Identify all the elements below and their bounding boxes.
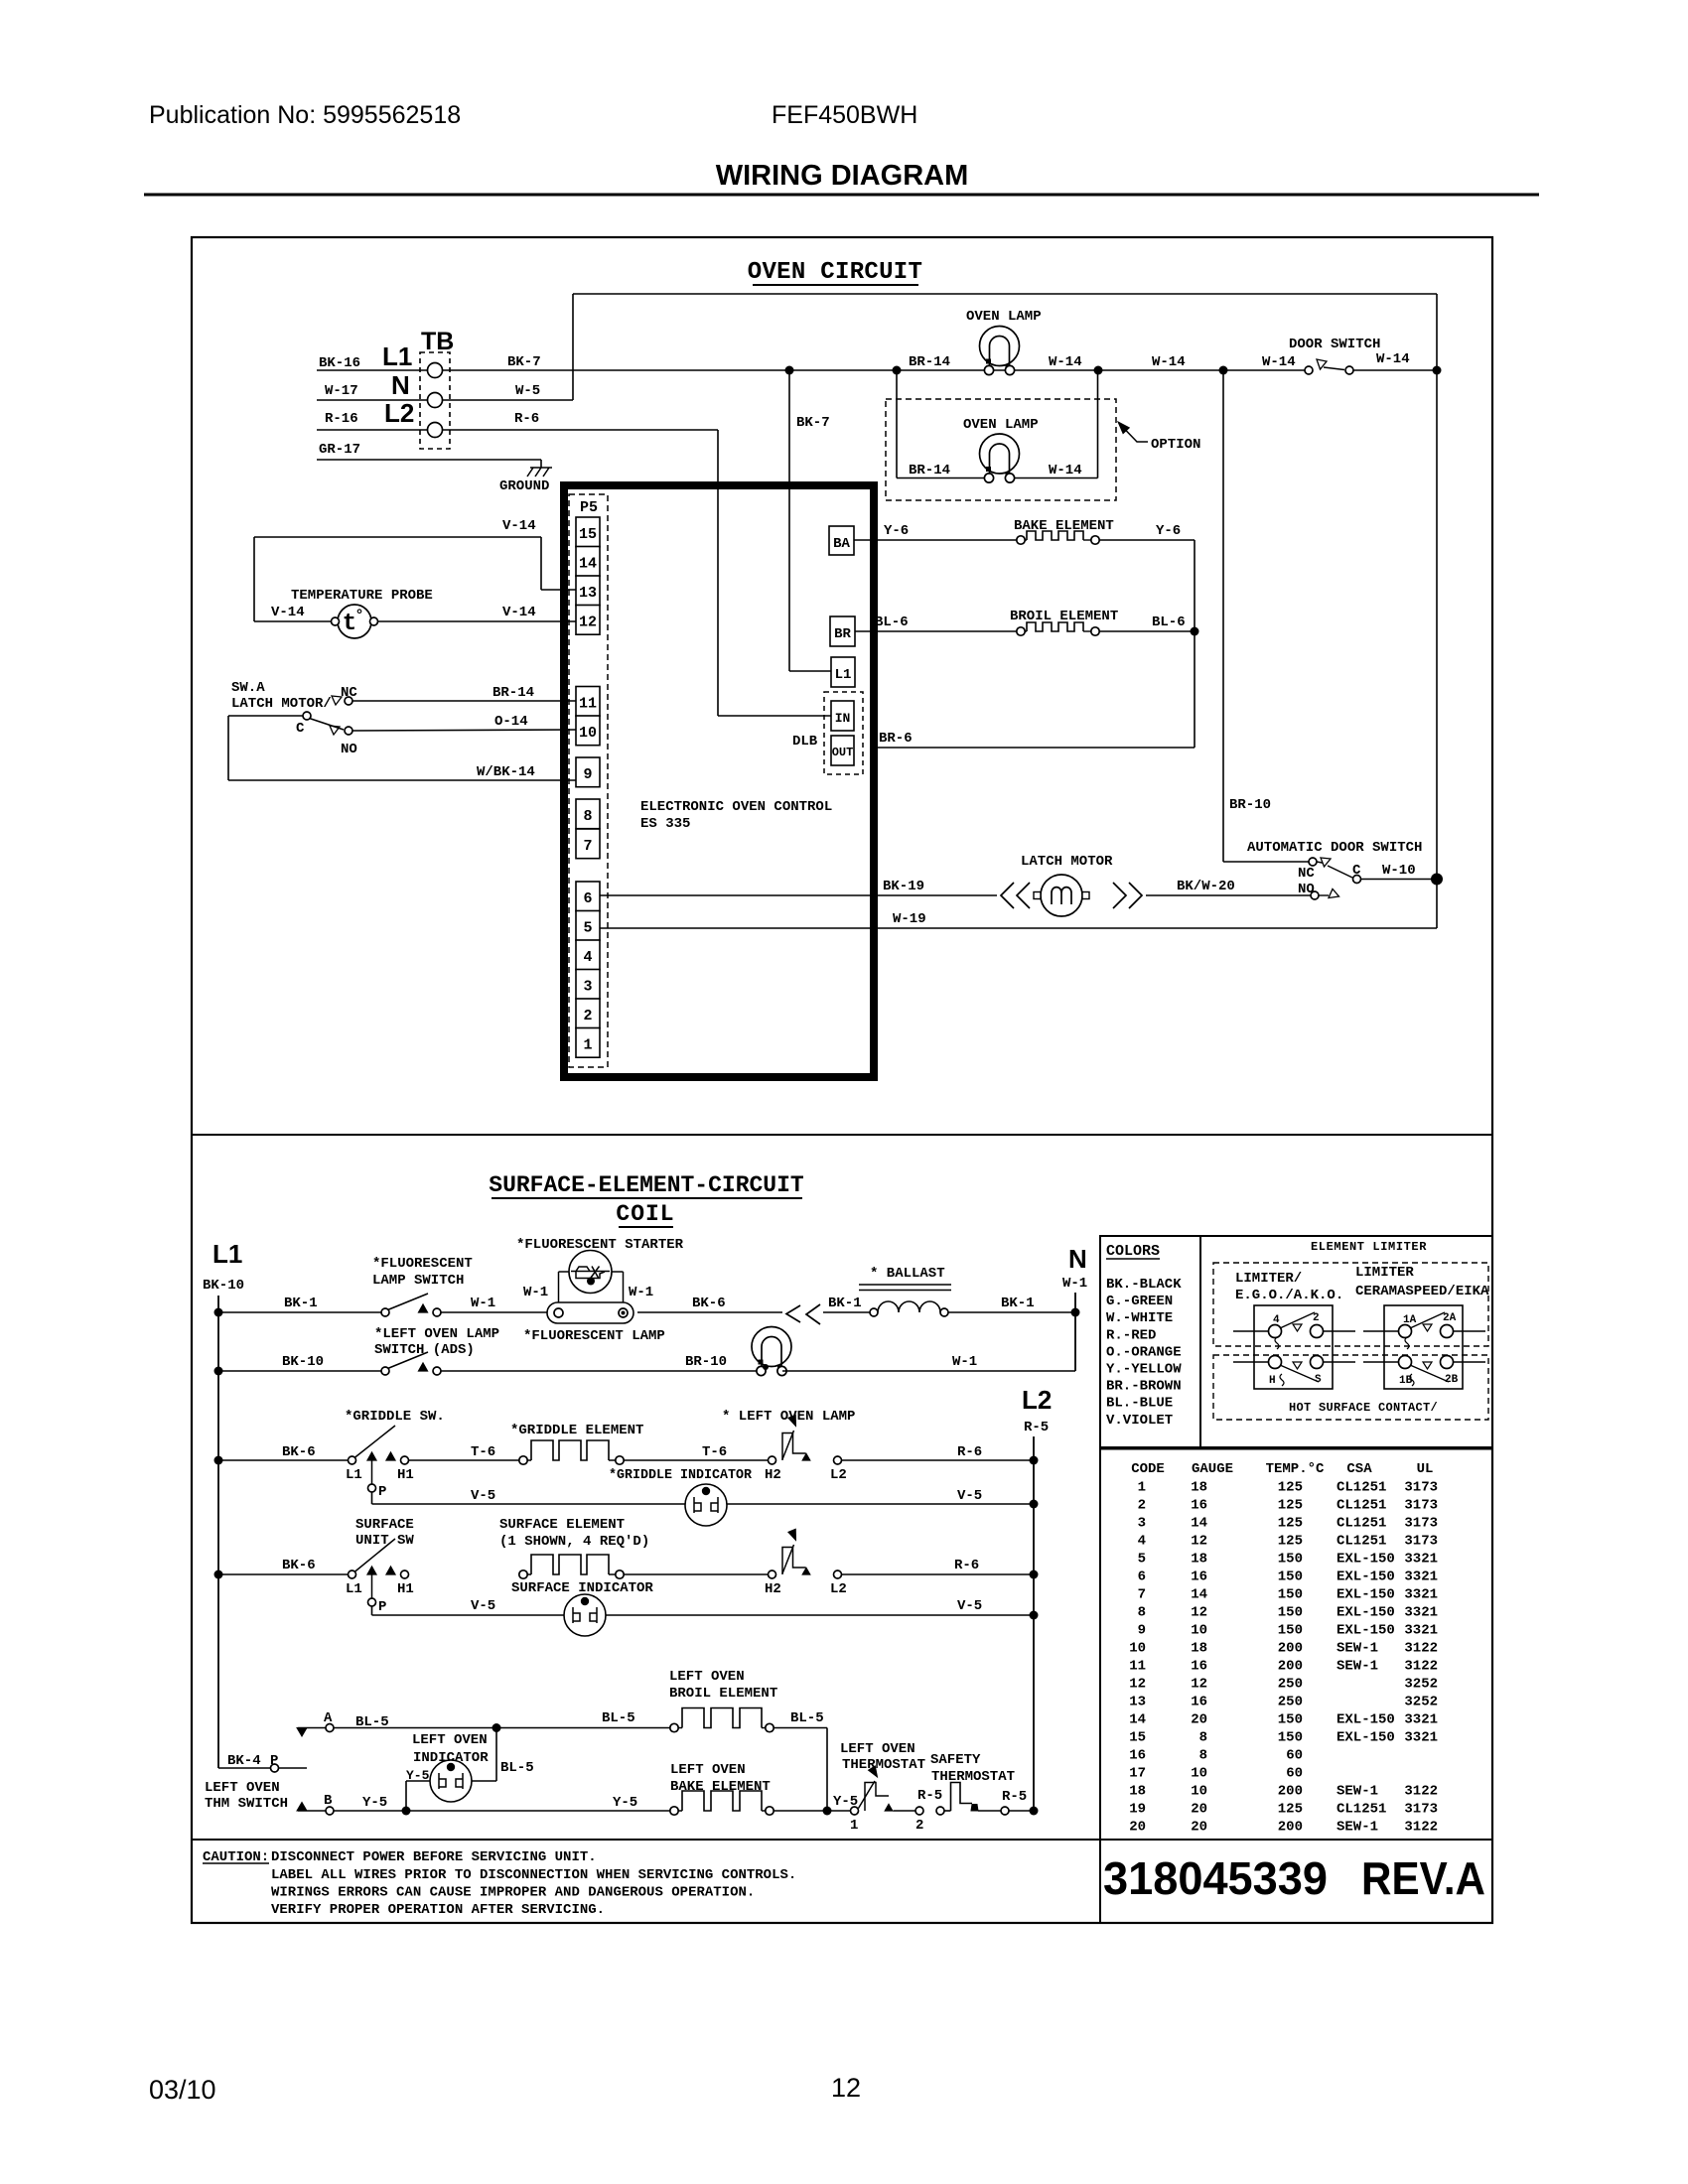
pin 8 of P5	[576, 799, 600, 829]
wire V-5 row6 right	[606, 1614, 1034, 1616]
svg-text:8: 8	[583, 808, 592, 825]
svg-text:BK-16: BK-16	[319, 355, 360, 371]
svg-text:12: 12	[831, 2073, 861, 2103]
limiter dashed box upper	[1213, 1263, 1488, 1346]
pin 12 of P5	[576, 606, 600, 635]
left oven THM switch common P	[271, 1764, 279, 1772]
svg-text:EXL-150: EXL-150	[1336, 1570, 1395, 1585]
svg-text:W-14: W-14	[1049, 463, 1082, 478]
svg-text:LEFT OVEN: LEFT OVEN	[670, 1762, 746, 1778]
svg-text:DOOR SWITCH: DOOR SWITCH	[1289, 337, 1380, 352]
wire BL-5 row7	[334, 1727, 670, 1729]
pin 6 of P5	[576, 882, 600, 911]
wire W-14 to right edge	[1353, 369, 1437, 371]
svg-text:Y-6: Y-6	[1156, 523, 1181, 539]
svg-text:20: 20	[1191, 1802, 1207, 1818]
wire T-6 row3	[409, 1459, 520, 1461]
wire BR-10 row2	[441, 1370, 761, 1372]
wire W-5 from TB	[443, 399, 573, 401]
svg-text:10: 10	[1129, 1641, 1146, 1657]
wire V-5 row6	[372, 1614, 565, 1616]
svg-text:10: 10	[1191, 1784, 1207, 1800]
svg-text:BAKE ELEMENT: BAKE ELEMENT	[670, 1779, 771, 1795]
svg-text:COLORS: COLORS	[1106, 1243, 1160, 1260]
left oven lamp (BR-10)	[752, 1327, 791, 1367]
node option lamp return junction	[1094, 366, 1103, 375]
svg-text:18: 18	[1191, 1480, 1207, 1496]
wire R-16 to TB	[317, 429, 427, 431]
svg-text:150: 150	[1278, 1605, 1303, 1621]
pin 11 of P5	[576, 687, 600, 717]
wire option lamp loop	[896, 370, 898, 478]
svg-text:L1: L1	[382, 341, 412, 371]
latch motor connector chevrons right	[1113, 883, 1142, 908]
wire V-5 row4	[372, 1503, 686, 1505]
node BR-10 branch junction	[1219, 366, 1228, 375]
node L2 bus row4	[1030, 1500, 1039, 1509]
node L1 bus row5	[214, 1570, 223, 1579]
svg-text:Publication No: 5995562518: Publication No: 5995562518	[149, 101, 461, 129]
section separator oven/surface	[192, 1134, 1492, 1136]
wire BK-10 row2	[218, 1370, 381, 1372]
svg-text:CL1251: CL1251	[1336, 1516, 1386, 1532]
svg-text:SURFACE-ELEMENT-CIRCUIT: SURFACE-ELEMENT-CIRCUIT	[489, 1172, 804, 1198]
svg-text:16: 16	[1191, 1659, 1207, 1675]
svg-text:W-1: W-1	[952, 1354, 977, 1370]
svg-text:P: P	[378, 1599, 386, 1615]
svg-text:12: 12	[1129, 1677, 1146, 1693]
svg-text:2: 2	[915, 1818, 923, 1834]
pin 9 of P5	[576, 757, 600, 787]
svg-text:* BALLAST: * BALLAST	[870, 1266, 945, 1282]
svg-text:1: 1	[1138, 1480, 1146, 1496]
svg-text:125: 125	[1278, 1498, 1303, 1514]
node Y-5 indicator junction	[402, 1807, 411, 1816]
svg-text:11: 11	[579, 696, 597, 713]
svg-text:COIL: COIL	[616, 1201, 674, 1227]
svg-text:SURFACE ELEMENT: SURFACE ELEMENT	[499, 1517, 625, 1533]
svg-text:T-6: T-6	[702, 1444, 727, 1460]
svg-text:W-1: W-1	[1062, 1276, 1087, 1292]
svg-text:SWITCH (ADS): SWITCH (ADS)	[374, 1342, 475, 1358]
svg-text:3173: 3173	[1404, 1498, 1438, 1514]
svg-text:60: 60	[1286, 1766, 1303, 1782]
svg-text:12: 12	[1191, 1534, 1207, 1550]
svg-text:A: A	[324, 1710, 333, 1726]
svg-text:VERIFY PROPER OPERATION AFTER: VERIFY PROPER OPERATION AFTER SERVICING.	[271, 1902, 605, 1918]
svg-text:REV.A: REV.A	[1361, 1852, 1485, 1904]
oven lamp (main)	[980, 327, 1020, 366]
svg-text:10: 10	[579, 725, 597, 742]
terminal BR box	[830, 616, 855, 646]
svg-text:NC: NC	[1298, 866, 1315, 882]
svg-text:LAMP SWITCH: LAMP SWITCH	[372, 1273, 464, 1289]
wire BR-14 NC to pin11	[352, 700, 576, 702]
svg-text:8: 8	[1138, 1605, 1146, 1621]
surface unit switch P contact	[371, 1574, 373, 1598]
svg-text:GAUGE: GAUGE	[1192, 1461, 1233, 1477]
svg-text:P: P	[270, 1753, 278, 1769]
wire BK-19 from pin6	[600, 894, 997, 896]
svg-text:CSA: CSA	[1346, 1461, 1372, 1477]
node L2 bus row6	[1030, 1611, 1039, 1620]
svg-text:R-6: R-6	[514, 411, 539, 427]
svg-text:7: 7	[583, 838, 592, 855]
svg-text:125: 125	[1278, 1516, 1303, 1532]
svg-text:3122: 3122	[1404, 1641, 1438, 1657]
svg-text:BA: BA	[833, 536, 850, 552]
svg-text:BR.-BROWN: BR.-BROWN	[1106, 1379, 1182, 1395]
wire Y-5 indicator to B row	[406, 1780, 430, 1782]
node BL-5 junction	[492, 1723, 501, 1732]
svg-text:L2: L2	[1022, 1385, 1052, 1415]
latch motor connector chevrons left	[1001, 883, 1030, 908]
svg-text:SURFACE: SURFACE	[355, 1517, 414, 1533]
svg-text:3321: 3321	[1404, 1623, 1438, 1639]
wire to thermostat contact 2	[894, 1810, 916, 1812]
svg-text:EXL-150: EXL-150	[1336, 1730, 1395, 1746]
svg-text:AUTOMATIC DOOR SWITCH: AUTOMATIC DOOR SWITCH	[1247, 840, 1422, 856]
svg-text:T-6: T-6	[471, 1444, 495, 1460]
svg-text:H2: H2	[765, 1467, 781, 1483]
wire W-17 to TB	[317, 399, 427, 401]
svg-text:BL-6: BL-6	[875, 614, 909, 630]
wire W-19 pin5 to right edge	[600, 927, 1437, 929]
svg-text:W-19: W-19	[893, 911, 926, 927]
svg-text:* LEFT OVEN LAMP: * LEFT OVEN LAMP	[722, 1409, 855, 1425]
svg-text:W-14: W-14	[1049, 354, 1082, 370]
svg-text:BK-6: BK-6	[282, 1558, 316, 1573]
svg-text:2: 2	[1138, 1498, 1146, 1514]
option dashed box	[886, 399, 1116, 500]
colors/element-limiter panel	[1100, 1236, 1492, 1447]
fluorescent lamp	[547, 1302, 633, 1323]
pin 7 of P5	[576, 829, 600, 859]
svg-text:1: 1	[850, 1818, 858, 1834]
svg-text:16: 16	[1191, 1498, 1207, 1514]
svg-text:3122: 3122	[1404, 1659, 1438, 1675]
svg-text:6: 6	[1138, 1570, 1146, 1585]
svg-text:14: 14	[1191, 1587, 1207, 1603]
svg-text:W-14: W-14	[1376, 351, 1410, 367]
wire row5 right	[624, 1573, 768, 1575]
wire L2 bus	[1033, 1436, 1035, 1811]
wire Y-6 to bake element	[854, 539, 1017, 541]
svg-text:16: 16	[1191, 1695, 1207, 1710]
svg-text:V-14: V-14	[502, 605, 536, 620]
svg-text:GR-17: GR-17	[319, 442, 360, 458]
svg-text:W-17: W-17	[325, 383, 358, 399]
pin 3 of P5	[576, 970, 600, 1000]
svg-text:GROUND: GROUND	[499, 478, 549, 494]
svg-text:8: 8	[1199, 1748, 1207, 1764]
pin 5 of P5	[576, 911, 600, 941]
svg-text:W-1: W-1	[629, 1285, 653, 1300]
svg-text:N: N	[1068, 1244, 1087, 1274]
svg-text:BL.-BLUE: BL.-BLUE	[1106, 1396, 1173, 1412]
svg-text:250: 250	[1278, 1695, 1303, 1710]
svg-text:LATCH MOTOR/: LATCH MOTOR/	[231, 696, 332, 712]
svg-text:SW.A: SW.A	[231, 680, 265, 696]
svg-text:125: 125	[1278, 1802, 1303, 1818]
svg-text:W/BK-14: W/BK-14	[477, 764, 535, 780]
svg-text:ELEMENT LIMITER: ELEMENT LIMITER	[1311, 1240, 1427, 1254]
svg-text:BROIL ELEMENT: BROIL ELEMENT	[669, 1686, 777, 1702]
svg-text:W-1: W-1	[471, 1296, 495, 1311]
svg-text:DLB: DLB	[792, 734, 818, 750]
svg-text:SEW-1: SEW-1	[1336, 1659, 1378, 1675]
svg-text:BK-19: BK-19	[883, 879, 924, 894]
terminal OUT box	[831, 736, 854, 765]
pin 1 of P5	[576, 1028, 600, 1058]
wire Y-5 row8	[334, 1810, 670, 1812]
node N bus row1	[1071, 1308, 1080, 1317]
limiter ceramaspeed box	[1384, 1305, 1463, 1389]
left oven lamp symbol row5	[769, 1570, 776, 1578]
svg-text:LIMITER: LIMITER	[1355, 1265, 1414, 1281]
svg-text:11: 11	[1129, 1659, 1146, 1675]
svg-text:BK-6: BK-6	[692, 1296, 726, 1311]
svg-text:1A: 1A	[1403, 1314, 1417, 1326]
svg-text:W-1: W-1	[523, 1285, 548, 1300]
svg-text:20: 20	[1191, 1820, 1207, 1836]
caution separator	[192, 1839, 1492, 1841]
svg-text:13: 13	[1129, 1695, 1146, 1710]
svg-text:H2: H2	[765, 1581, 781, 1597]
wire BL-5 indicator feed	[495, 1728, 497, 1782]
svg-text:15: 15	[1129, 1730, 1146, 1746]
svg-text:WIRINGS ERRORS CAN CAUSE IMPRO: WIRINGS ERRORS CAN CAUSE IMPROPER AND DA…	[271, 1885, 755, 1901]
svg-text:SEW-1: SEW-1	[1336, 1784, 1378, 1800]
svg-text:G.-GREEN: G.-GREEN	[1106, 1294, 1173, 1309]
contact B	[298, 1810, 326, 1812]
svg-text:BR-14: BR-14	[909, 354, 950, 370]
svg-text:O.-ORANGE: O.-ORANGE	[1106, 1344, 1182, 1360]
temperature probe loop wires V-14	[254, 536, 541, 538]
connector chevrons row1	[786, 1305, 800, 1322]
svg-text:CL1251: CL1251	[1336, 1534, 1386, 1550]
wire BL-6 from broil element	[1099, 630, 1195, 632]
svg-text:Y.-YELLOW: Y.-YELLOW	[1106, 1362, 1182, 1378]
wire N bus	[1074, 1293, 1076, 1371]
wire BR-6 from OUT	[875, 747, 1195, 749]
svg-text:150: 150	[1278, 1552, 1303, 1568]
svg-text:12: 12	[579, 614, 597, 631]
svg-text:150: 150	[1278, 1623, 1303, 1639]
wire L1 bus	[217, 1296, 219, 1768]
svg-text:CL1251: CL1251	[1336, 1498, 1386, 1514]
caution/part-number divider	[1099, 1840, 1101, 1923]
svg-text:3321: 3321	[1404, 1605, 1438, 1621]
svg-text:200: 200	[1278, 1820, 1303, 1836]
svg-text:150: 150	[1278, 1730, 1303, 1746]
svg-text:19: 19	[1129, 1802, 1146, 1818]
svg-text:7: 7	[1138, 1587, 1146, 1603]
svg-text:°: °	[354, 608, 363, 624]
ground symbol	[527, 468, 552, 477]
svg-text:EXL-150: EXL-150	[1336, 1712, 1395, 1728]
pin 2 of P5	[576, 999, 600, 1028]
svg-text:BR-6: BR-6	[879, 731, 913, 747]
svg-text:UL: UL	[1417, 1461, 1434, 1477]
svg-text:Y-5: Y-5	[362, 1795, 387, 1811]
svg-text:R-5: R-5	[1024, 1420, 1049, 1435]
node L2 bus row5	[1030, 1570, 1039, 1579]
svg-text:BK-10: BK-10	[282, 1354, 324, 1370]
svg-text:4: 4	[1138, 1534, 1146, 1550]
svg-text:4: 4	[1273, 1314, 1280, 1326]
wire BK-4 to THM switch	[218, 1767, 270, 1769]
svg-text:3: 3	[583, 979, 592, 996]
wire BR-10	[1222, 370, 1224, 862]
svg-text:3173: 3173	[1404, 1534, 1438, 1550]
svg-text:18: 18	[1191, 1641, 1207, 1657]
svg-text:14: 14	[579, 556, 597, 573]
svg-text:BK-1: BK-1	[828, 1296, 862, 1311]
node BL-5/Y-5 junction	[823, 1807, 832, 1816]
svg-text:THERMOSTAT: THERMOSTAT	[931, 1769, 1015, 1785]
svg-text:14: 14	[1191, 1516, 1207, 1532]
svg-text:L2: L2	[384, 398, 414, 428]
wire V-5 row4 right	[727, 1503, 1034, 1505]
oven lamp (option)	[980, 434, 1020, 474]
svg-text:C: C	[296, 721, 305, 737]
svg-text:BK/W-20: BK/W-20	[1177, 879, 1235, 894]
svg-text:SEW-1: SEW-1	[1336, 1641, 1378, 1657]
svg-text:10: 10	[1191, 1623, 1207, 1639]
wire Y-6 from bake element	[1099, 539, 1195, 541]
svg-text:BL-5: BL-5	[602, 1710, 635, 1726]
svg-text:(1 SHOWN, 4 REQ'D): (1 SHOWN, 4 REQ'D)	[499, 1534, 649, 1550]
svg-text:200: 200	[1278, 1784, 1303, 1800]
svg-text:125: 125	[1278, 1480, 1303, 1496]
svg-text:13: 13	[579, 585, 597, 602]
wire W-1 to fluorescent lamp	[441, 1311, 547, 1313]
svg-text:EXL-150: EXL-150	[1336, 1552, 1395, 1568]
svg-text:FEF450BWH: FEF450BWH	[772, 101, 917, 129]
svg-text:V-5: V-5	[957, 1598, 982, 1614]
svg-text:2: 2	[583, 1008, 592, 1024]
wire W-10 to junction	[1361, 879, 1438, 881]
svg-text:E.G.O./A.K.O.: E.G.O./A.K.O.	[1235, 1288, 1343, 1303]
svg-text:3252: 3252	[1404, 1677, 1438, 1693]
contact A	[298, 1727, 326, 1729]
terminal L1 box	[831, 657, 855, 687]
svg-text:5: 5	[583, 920, 592, 937]
pin 14 of P5	[576, 547, 600, 577]
svg-text:TEMP.°C: TEMP.°C	[1266, 1461, 1325, 1477]
svg-text:3122: 3122	[1404, 1784, 1438, 1800]
svg-text:O-14: O-14	[494, 714, 528, 730]
svg-text:LEFT OVEN: LEFT OVEN	[669, 1669, 745, 1685]
svg-text:EXL-150: EXL-150	[1336, 1623, 1395, 1639]
svg-text:60: 60	[1286, 1748, 1303, 1764]
svg-text:BK-1: BK-1	[1001, 1296, 1035, 1311]
svg-text:LEFT OVEN: LEFT OVEN	[840, 1741, 915, 1757]
wire R-6 row3	[842, 1459, 1035, 1461]
terminal block TB	[420, 352, 450, 449]
svg-text:C: C	[1352, 863, 1361, 879]
svg-text:*FLUORESCENT: *FLUORESCENT	[372, 1256, 473, 1272]
svg-text:16: 16	[1129, 1748, 1146, 1764]
svg-text:L1: L1	[346, 1467, 362, 1483]
DLB dashed box	[824, 692, 863, 774]
svg-text:BK-4: BK-4	[227, 1753, 261, 1769]
surface indicator	[564, 1594, 606, 1636]
svg-text:3321: 3321	[1404, 1712, 1438, 1728]
svg-text:P: P	[378, 1484, 386, 1500]
wire BL-6 to broil element	[855, 630, 1017, 632]
wire gauge table box	[1099, 1447, 1101, 1840]
svg-text:1B: 1B	[1399, 1375, 1413, 1387]
wire R-5 to L2 bus	[1009, 1810, 1034, 1812]
svg-text:6: 6	[583, 890, 592, 907]
pin 13 of P5	[576, 576, 600, 606]
svg-text:BK-6: BK-6	[282, 1444, 316, 1460]
node L1 bus row3	[214, 1456, 223, 1465]
svg-text:R-16: R-16	[325, 411, 358, 427]
wire BL-5 row7 right	[774, 1727, 827, 1729]
wire R-6 row5	[842, 1573, 1035, 1575]
svg-text:4: 4	[583, 949, 592, 966]
svg-text:H1: H1	[397, 1581, 414, 1597]
wire BK-1 to ballast	[823, 1311, 870, 1313]
svg-text:CERAMASPEED/EIKA: CERAMASPEED/EIKA	[1355, 1284, 1489, 1299]
svg-text:*GRIDDLE ELEMENT: *GRIDDLE ELEMENT	[510, 1423, 643, 1438]
svg-text:R-5: R-5	[917, 1788, 942, 1804]
wire BK-1 to N	[948, 1311, 1075, 1313]
svg-text:20: 20	[1129, 1820, 1146, 1836]
svg-text:3173: 3173	[1404, 1802, 1438, 1818]
wire W/BK-14 common to pin9	[228, 715, 303, 717]
svg-text:THM SWITCH: THM SWITCH	[205, 1796, 288, 1812]
svg-text:L1: L1	[346, 1581, 362, 1597]
svg-text:14: 14	[1129, 1712, 1146, 1728]
node oven lamp branch junction	[893, 366, 902, 375]
title rule	[144, 194, 1539, 197]
wire T-6 row3 right	[624, 1459, 768, 1461]
svg-text:10: 10	[1191, 1766, 1207, 1782]
svg-text:OPTION: OPTION	[1151, 437, 1200, 453]
svg-text:IN: IN	[835, 711, 851, 726]
svg-text:V-14: V-14	[271, 605, 305, 620]
svg-text:OUT: OUT	[832, 746, 854, 759]
svg-text:BK-7: BK-7	[507, 354, 541, 370]
svg-text:15: 15	[579, 526, 597, 543]
svg-text:V-5: V-5	[471, 1598, 495, 1614]
svg-text:W-10: W-10	[1382, 863, 1416, 879]
svg-text:3173: 3173	[1404, 1480, 1438, 1496]
svg-text:3: 3	[1138, 1516, 1146, 1532]
svg-text:125: 125	[1278, 1534, 1303, 1550]
svg-text:R-6: R-6	[954, 1558, 979, 1573]
svg-text:W.-WHITE: W.-WHITE	[1106, 1310, 1173, 1326]
svg-text:OVEN LAMP: OVEN LAMP	[966, 309, 1042, 325]
svg-text:150: 150	[1278, 1712, 1303, 1728]
svg-text:*LEFT OVEN LAMP: *LEFT OVEN LAMP	[374, 1326, 499, 1342]
svg-text:1: 1	[583, 1037, 592, 1054]
svg-text:3321: 3321	[1404, 1587, 1438, 1603]
svg-text:L1: L1	[212, 1239, 242, 1269]
wire BK-1 row1	[218, 1311, 381, 1313]
svg-text:W-14: W-14	[1152, 354, 1186, 370]
svg-text:V-5: V-5	[957, 1488, 982, 1504]
svg-text:WIRING DIAGRAM: WIRING DIAGRAM	[716, 160, 969, 192]
svg-text:3252: 3252	[1404, 1695, 1438, 1710]
svg-text:*GRIDDLE SW.: *GRIDDLE SW.	[345, 1409, 445, 1425]
svg-text:BK.-BLACK: BK.-BLACK	[1106, 1277, 1182, 1293]
svg-text:L2: L2	[830, 1581, 847, 1597]
